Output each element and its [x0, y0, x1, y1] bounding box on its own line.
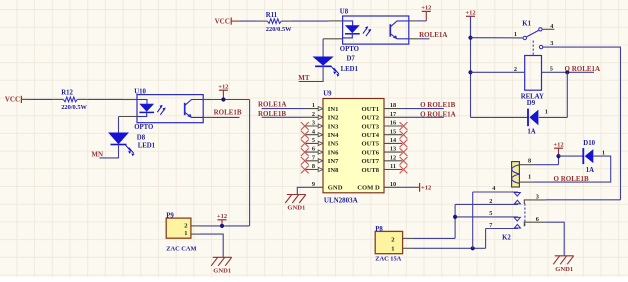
svg-text:13: 13 — [390, 146, 396, 153]
pin 5 (IN5) of U9 — [306, 137, 339, 148]
svg-text:2: 2 — [312, 111, 315, 118]
svg-text:D7: D7 — [347, 56, 356, 63]
wire D8 to MN — [99, 145, 118, 158]
wire +12 rail to K1 pin 2 — [471, 71, 525, 73]
wire net O ROLE1B (pin 18) — [402, 108, 444, 110]
emission arrows D8 — [126, 145, 132, 154]
diode D10 — [583, 148, 593, 164]
wire up to K2 pin 2 — [454, 204, 456, 238]
svg-text:LED1: LED1 — [138, 143, 156, 150]
svg-text:VCC: VCC — [5, 96, 20, 104]
svg-text:15: 15 — [390, 128, 396, 135]
svg-text:11: 11 — [390, 163, 396, 170]
svg-text:GND1: GND1 — [213, 267, 231, 274]
svg-text:IN7: IN7 — [328, 158, 339, 165]
ground GND1 (P9) — [211, 257, 232, 266]
no-connect X on pin 13 — [400, 148, 408, 156]
wire VCC to R11 — [239, 20, 257, 22]
resistor R11 — [257, 20, 267, 22]
svg-text:R12: R12 — [61, 89, 73, 96]
wire D9 anode — [539, 116, 568, 118]
svg-text:O ROLE1A: O ROLE1A — [420, 110, 456, 118]
wire +12 rail down to P9 pin2 — [249, 100, 251, 226]
emission arrows D7 — [331, 66, 337, 75]
wire pin 9 to ground — [297, 187, 307, 194]
wire K1 pin 5 (net O ROLE1A) — [542, 71, 595, 73]
svg-text:IN3: IN3 — [328, 123, 339, 130]
opto-coupler U8 — [343, 16, 409, 44]
no-connect X on pin 4 — [301, 131, 309, 139]
power +12 (U10) — [218, 83, 228, 99]
svg-text:1: 1 — [312, 102, 315, 109]
LED D8 — [109, 133, 128, 144]
svg-text:U8: U8 — [340, 9, 349, 16]
svg-text:OPTO: OPTO — [340, 46, 359, 53]
wire +12 rail K1 (vertical) — [470, 16, 472, 117]
LED D7 — [314, 57, 333, 65]
sheet bottom margin — [0, 277, 628, 282]
svg-text:+12: +12 — [553, 142, 563, 149]
svg-text:OUT1: OUT1 — [362, 106, 380, 113]
junction K2 pin 5 branch — [453, 215, 457, 219]
wire +12 to D10 cathode — [559, 155, 584, 157]
contact K2 pin 2 — [514, 200, 520, 204]
pin stub U10 emitter — [203, 116, 211, 118]
svg-text:GND: GND — [328, 185, 343, 192]
wire K2 pin 4 row — [473, 191, 518, 193]
no-connect X on pin 15 — [400, 131, 408, 139]
svg-text:P8: P8 — [375, 226, 383, 233]
wire U10 collector to +12 rail — [211, 99, 249, 101]
wire up to K2 pin 7 — [485, 229, 487, 249]
wire K2 pin8 to +12 — [534, 164, 559, 166]
pin 1 of P8 — [403, 247, 414, 249]
svg-text:1A: 1A — [527, 129, 535, 136]
svg-text:5: 5 — [489, 210, 492, 217]
junction O ROLE1A — [565, 70, 569, 74]
svg-text:6: 6 — [536, 216, 539, 223]
svg-text:COM D: COM D — [357, 185, 380, 192]
svg-text:220/0.5W: 220/0.5W — [266, 26, 292, 33]
junction K1 pin2 tap — [468, 70, 472, 74]
pin 1 (IN1) of U9 — [306, 102, 339, 113]
actuator dashed link (K2) — [524, 204, 526, 228]
wire U8 cathode pin — [323, 38, 343, 40]
svg-text:+12: +12 — [218, 83, 228, 90]
svg-text:OUT8: OUT8 — [362, 167, 380, 174]
ground GND1 (U9) — [285, 195, 306, 204]
wire U10 cathode down to D8 — [118, 117, 120, 134]
wire to K1 pin 1 — [471, 37, 524, 39]
actuator dashed link (K1) — [532, 41, 534, 56]
svg-text:IN1: IN1 — [328, 106, 339, 113]
svg-text:O ROLE1B: O ROLE1B — [420, 101, 456, 109]
junction P9 +12 — [220, 224, 224, 228]
junction +12 / D10 — [556, 154, 560, 158]
svg-text:O ROLE1B: O ROLE1B — [554, 175, 590, 183]
svg-text:ROLE1A: ROLE1A — [419, 31, 447, 39]
no-connect X on pin 8 — [301, 166, 309, 174]
svg-text:2: 2 — [489, 198, 492, 205]
pin 11 (OUT8) of U9 — [362, 163, 403, 174]
svg-text:+12: +12 — [421, 185, 431, 192]
wire +12 stem (K2) — [558, 156, 560, 165]
pin 1 of P9 — [191, 233, 200, 235]
power port VCC (left) — [5, 96, 30, 104]
svg-text:1: 1 — [602, 149, 605, 156]
no-connect X on pin 6 — [301, 148, 309, 156]
pin 14 (OUT5) of U9 — [362, 137, 403, 148]
svg-text:OUT3: OUT3 — [362, 123, 380, 130]
svg-text:1: 1 — [184, 230, 187, 237]
wire K2 pin 2 row — [455, 203, 518, 205]
svg-text:IN2: IN2 — [328, 115, 339, 122]
pin 6 of K2 (common) — [524, 222, 545, 226]
wire U10 cathode pin — [119, 116, 138, 118]
ground GND1 (K2) — [553, 256, 574, 264]
svg-text:9: 9 — [312, 181, 315, 188]
switch throw pin 4 (K1) — [539, 23, 555, 31]
svg-text:MN: MN — [91, 151, 103, 159]
svg-text:OUT4: OUT4 — [362, 132, 380, 139]
svg-text:3: 3 — [536, 194, 539, 201]
svg-text:P9: P9 — [166, 212, 174, 219]
pin 4 (IN4) of U9 — [306, 128, 339, 139]
svg-text:1: 1 — [514, 31, 517, 38]
svg-text:10: 10 — [390, 181, 396, 188]
connector P8 — [375, 231, 402, 253]
power +12 (U8) — [421, 5, 431, 21]
wire O ROLE1A down to D9 — [566, 72, 568, 117]
no-connect X on pin 14 — [400, 140, 408, 148]
pin 6 (IN6) of U9 — [306, 146, 339, 157]
connector P9 — [166, 218, 191, 238]
pin stub U10 collector — [203, 99, 211, 101]
power +12 (U9 pin10, horizontal) — [415, 183, 432, 192]
wire U8 collector to +12 — [416, 20, 426, 22]
relay coil K1 — [525, 56, 542, 91]
svg-text:14: 14 — [390, 137, 397, 144]
svg-text:D10: D10 — [583, 140, 595, 147]
switch contact K1 (common pin 1) — [523, 30, 539, 39]
pin stub U10 anode — [123, 99, 137, 101]
power +12 (K1) — [465, 10, 475, 38]
pin 18 (OUT1) of U9 — [362, 102, 403, 113]
svg-text:2: 2 — [184, 222, 187, 229]
svg-text:16: 16 — [390, 120, 396, 127]
wire P9 pin2 to +12 rail — [200, 225, 250, 227]
svg-text:U10: U10 — [134, 88, 146, 95]
pin 16 (OUT3) of U9 — [362, 120, 403, 131]
wire U8 cathode down to D7 — [322, 39, 324, 57]
svg-text:8: 8 — [528, 157, 531, 164]
switch throw pin 3 (K1) — [539, 40, 553, 49]
pin 15 (OUT4) of U9 — [362, 128, 403, 139]
wire ROLE1A to pin 1 — [262, 108, 306, 110]
junction K1 pin1 tap — [468, 36, 472, 40]
no-connect X on pin 12 — [400, 157, 408, 165]
svg-text:1: 1 — [391, 245, 394, 252]
svg-text:6: 6 — [312, 146, 315, 153]
no-connect X on pin 7 — [301, 157, 309, 165]
svg-text:ROLE1B: ROLE1B — [258, 110, 286, 118]
contact K2 pin 7 — [514, 224, 520, 228]
svg-text:3: 3 — [312, 120, 315, 127]
power +12 (P9) — [217, 213, 227, 226]
svg-text:220/0.5W: 220/0.5W — [61, 104, 87, 111]
no-connect X on pin 3 — [301, 122, 309, 130]
svg-text:+12: +12 — [217, 213, 227, 220]
pin 7 (IN7) of U9 — [306, 154, 339, 165]
relay coil K2 — [512, 162, 521, 187]
svg-text:VCC: VCC — [215, 17, 230, 25]
wire D10 anode loop — [534, 156, 611, 182]
diode D9 — [528, 109, 538, 127]
pin 10 (COM D) of U9 — [357, 181, 402, 192]
pin 3 (IN3) of U9 — [306, 120, 339, 131]
wire K2 pin 7 row — [486, 228, 518, 230]
svg-text:+12: +12 — [465, 10, 475, 17]
svg-text:ZAC 15A: ZAC 15A — [375, 256, 401, 263]
pin stub U8 anode — [329, 20, 343, 22]
wire pin 10 to +12 — [402, 186, 415, 188]
pin 1 of K2 coil — [519, 181, 534, 183]
svg-text:IN6: IN6 — [328, 149, 339, 156]
resistor R12 — [53, 98, 63, 100]
pin 12 (OUT7) of U9 — [362, 154, 403, 165]
svg-text:OUT2: OUT2 — [362, 115, 380, 122]
pin 2 of P9 — [191, 225, 200, 227]
svg-text:18: 18 — [390, 102, 396, 109]
no-connect X on pin 16 — [400, 122, 408, 130]
svg-text:1A: 1A — [586, 167, 594, 174]
wire net ROLE1A (U8 emitter) — [418, 38, 429, 40]
pin 9 (GND) of U9 — [307, 181, 343, 192]
pin 8 of K2 coil — [519, 164, 534, 166]
svg-text:D9: D9 — [527, 100, 536, 107]
wire P8 pin2 to K2 pins 2/5 — [414, 237, 455, 239]
wire K2 pin 6 to ground — [546, 222, 565, 256]
pin 3 of K2 (common) — [524, 200, 545, 204]
svg-text:5: 5 — [312, 137, 315, 144]
wire up to K2 pin 4 — [472, 192, 474, 248]
wire ROLE1B to pin 2 — [262, 116, 306, 118]
wire P8 pin1 to K2 pins 4/7 — [414, 247, 486, 249]
pin 17 (OUT2) of U9 — [362, 111, 403, 122]
svg-text:K2: K2 — [502, 235, 511, 242]
wire P9 pin1 to ground — [200, 234, 223, 257]
svg-text:+12: +12 — [421, 5, 431, 12]
wire VCC to R12 — [29, 98, 53, 100]
wire K2 pin 3 to right rail — [546, 199, 621, 201]
svg-text:7: 7 — [489, 222, 492, 229]
svg-text:2: 2 — [391, 237, 394, 244]
wire K1 pin 3 to right rail — [543, 47, 621, 200]
junction P8 pin1 branch — [471, 246, 475, 250]
svg-text:R11: R11 — [266, 12, 278, 19]
wire K2 pin 5 row — [455, 216, 518, 218]
wire R12 to U10 — [87, 98, 123, 100]
svg-text:O ROLE1A: O ROLE1A — [565, 65, 601, 73]
svg-text:OUT6: OUT6 — [362, 149, 380, 156]
svg-text:ROLE1A: ROLE1A — [258, 101, 286, 109]
svg-text:MT: MT — [298, 74, 310, 82]
svg-text:U9: U9 — [323, 90, 332, 97]
svg-text:OPTO: OPTO — [134, 124, 153, 131]
contact K2 pin 5 — [514, 217, 520, 221]
svg-text:5: 5 — [550, 65, 553, 72]
wire net O ROLE1A (pin 17) — [402, 116, 444, 118]
svg-text:1: 1 — [545, 108, 548, 115]
svg-text:IN5: IN5 — [328, 141, 339, 148]
svg-text:K1: K1 — [522, 20, 531, 27]
wire D7 to MT — [299, 66, 323, 81]
svg-text:OUT7: OUT7 — [362, 158, 380, 165]
power port VCC (top) — [215, 17, 240, 25]
power +12 (K2) — [553, 142, 563, 157]
svg-text:8: 8 — [312, 163, 315, 170]
junction U10 +12 — [221, 97, 225, 101]
opto-coupler U10 — [137, 95, 203, 123]
pin 2 of P8 — [403, 237, 414, 239]
svg-text:17: 17 — [390, 111, 396, 118]
svg-text:ZAC CAM: ZAC CAM — [166, 246, 196, 253]
pin 2 (IN2) of U9 — [306, 111, 339, 122]
svg-text:IN8: IN8 — [328, 167, 339, 174]
IC U9 body — [323, 99, 384, 193]
svg-text:IN4: IN4 — [328, 132, 339, 139]
svg-text:1: 1 — [528, 174, 531, 181]
svg-text:GND1: GND1 — [555, 266, 573, 273]
pin 13 (OUT6) of U9 — [362, 146, 403, 157]
no-connect X on pin 11 — [400, 166, 408, 174]
svg-text:GND1: GND1 — [287, 205, 305, 212]
svg-text:3: 3 — [550, 40, 553, 47]
svg-text:ROLE1B: ROLE1B — [214, 109, 242, 117]
wire +12 rail to D9 cathode — [471, 116, 529, 118]
no-connect X on pin 5 — [301, 140, 309, 148]
svg-text:OUT5: OUT5 — [362, 141, 380, 148]
svg-text:LED1: LED1 — [341, 66, 359, 73]
svg-text:D8: D8 — [137, 134, 146, 141]
wire net ROLE1B (U10 emitter) — [211, 116, 239, 118]
wire R11 to U8 — [291, 20, 328, 22]
svg-text:12: 12 — [390, 154, 396, 161]
pin stub U8 emitter — [409, 38, 419, 40]
contact K2 pin 4 — [514, 193, 520, 197]
svg-text:7: 7 — [312, 154, 315, 161]
pin stub U8 collector — [409, 20, 417, 22]
pin 8 (IN8) of U9 — [306, 163, 339, 174]
svg-text:ULN2803A: ULN2803A — [324, 197, 358, 205]
